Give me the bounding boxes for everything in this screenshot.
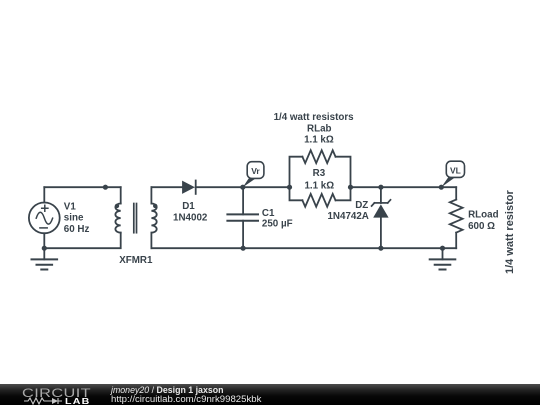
svg-text:D1: D1 [182, 201, 195, 212]
svg-text:60 Hz: 60 Hz [64, 224, 90, 235]
svg-text:R3: R3 [313, 168, 326, 179]
svg-text:1.1 kΩ: 1.1 kΩ [304, 181, 334, 192]
svg-text:1.1 kΩ: 1.1 kΩ [304, 135, 334, 146]
svg-text:250 µF: 250 µF [262, 219, 293, 230]
svg-text:C1: C1 [262, 208, 275, 219]
svg-text:600 Ω: 600 Ω [468, 221, 495, 232]
svg-text:1/4 watt resistors: 1/4 watt resistors [274, 112, 355, 123]
svg-text:V1: V1 [64, 201, 77, 212]
svg-text:1/4 watt resistor: 1/4 watt resistor [504, 190, 516, 274]
svg-text:XFMR1: XFMR1 [119, 255, 153, 266]
svg-text:sine: sine [64, 213, 84, 224]
svg-text:RLoad: RLoad [468, 210, 498, 221]
svg-text:DZ: DZ [355, 200, 368, 211]
svg-text:VL: VL [450, 165, 461, 175]
svg-text:1N4742A: 1N4742A [327, 211, 368, 222]
svg-text:Vr: Vr [251, 166, 260, 176]
svg-text:RLab: RLab [307, 123, 332, 134]
svg-text:1N4002: 1N4002 [173, 213, 208, 224]
